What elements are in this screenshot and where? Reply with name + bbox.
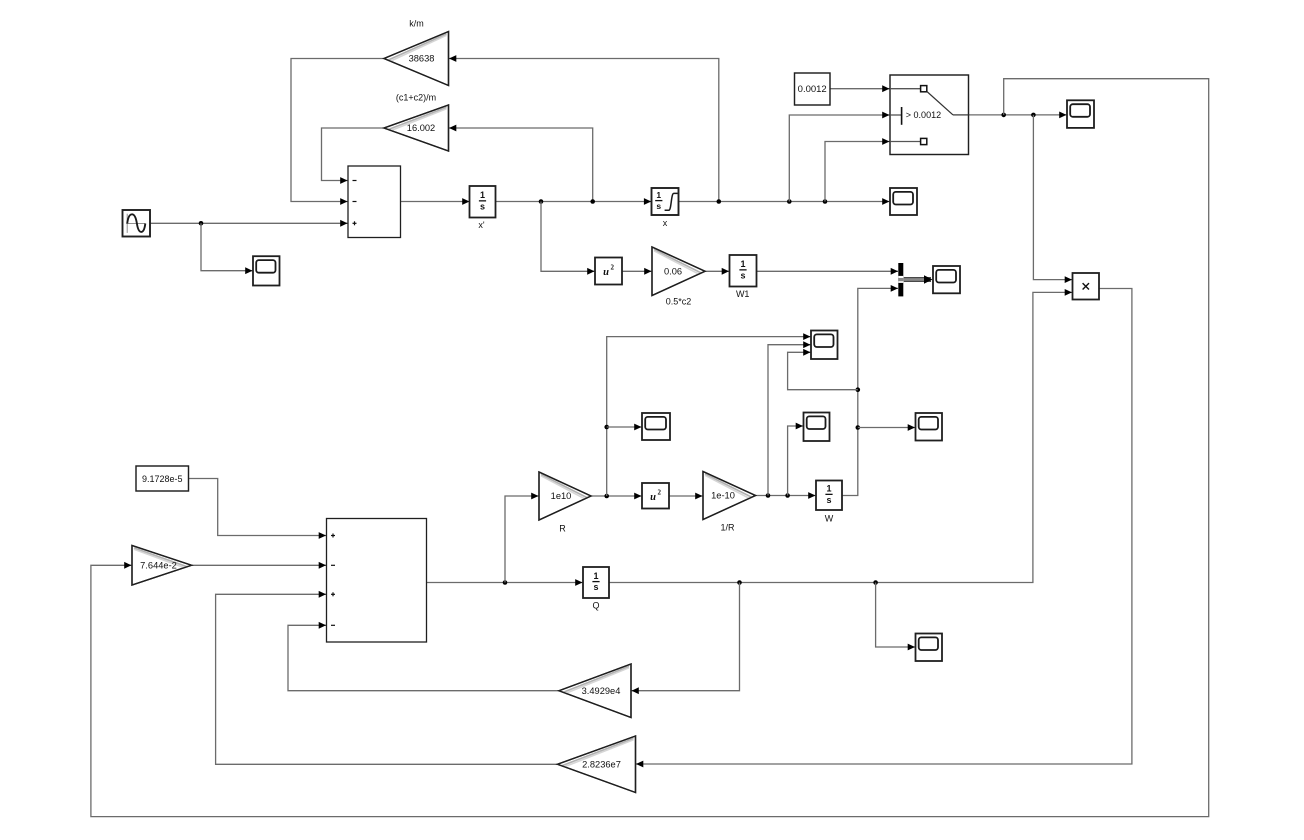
svg-text:2: 2 (658, 488, 662, 496)
svg-text:1: 1 (740, 259, 745, 269)
svg-text:38638: 38638 (409, 54, 435, 64)
svg-text:1: 1 (826, 484, 831, 494)
svg-text:9.1728e-5: 9.1728e-5 (142, 474, 183, 484)
svg-text:> 0.0012: > 0.0012 (906, 110, 941, 120)
svg-text:1: 1 (593, 571, 598, 581)
svg-text:u: u (650, 492, 656, 503)
svg-text:2.8236e7: 2.8236e7 (582, 759, 621, 769)
svg-text:W1: W1 (736, 289, 750, 299)
svg-text:s: s (656, 201, 661, 211)
svg-text:1/R: 1/R (720, 523, 735, 533)
svg-text:R: R (559, 523, 566, 533)
svg-text:k/m: k/m (409, 18, 424, 28)
svg-text:s: s (480, 201, 485, 211)
svg-text:1e-10: 1e-10 (711, 491, 735, 501)
svg-text:0.0012: 0.0012 (798, 84, 827, 95)
svg-text:0.5*c2: 0.5*c2 (666, 297, 692, 307)
svg-text:1: 1 (656, 190, 661, 200)
svg-text:s: s (593, 582, 598, 592)
svg-text:0.06: 0.06 (664, 266, 682, 276)
svg-text:s: s (826, 495, 831, 505)
svg-text:W: W (825, 514, 834, 524)
svg-text:2: 2 (611, 264, 615, 272)
svg-text:3.4929e4: 3.4929e4 (582, 686, 621, 696)
svg-text:(c1+c2)/m: (c1+c2)/m (396, 92, 436, 102)
svg-text:u: u (603, 267, 609, 278)
svg-text:1e10: 1e10 (551, 491, 572, 501)
svg-text:1: 1 (480, 190, 485, 200)
svg-text:16.002: 16.002 (407, 123, 435, 133)
svg-text:7.644e-2: 7.644e-2 (140, 560, 177, 570)
svg-text:s: s (740, 270, 745, 280)
svg-text:x': x' (478, 220, 485, 230)
svg-text:Q: Q (592, 601, 599, 611)
svg-text:x: x (663, 218, 668, 228)
